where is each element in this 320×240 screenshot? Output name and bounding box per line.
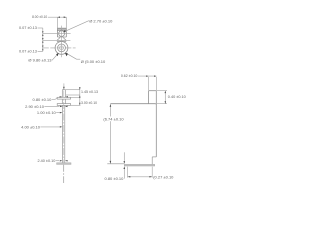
svg-text:0.40 ±0.10: 0.40 ±0.10 bbox=[168, 95, 186, 99]
svg-text:2.40 ±0.10: 2.40 ±0.10 bbox=[37, 159, 55, 163]
svg-text:4.00 ±0.10: 4.00 ±0.10 bbox=[21, 124, 41, 129]
svg-text:Ø 9.80 ±0.13: Ø 9.80 ±0.13 bbox=[28, 58, 52, 63]
svg-text:Ø 2.70 ±0.10: Ø 2.70 ±0.10 bbox=[89, 18, 113, 23]
svg-text:2.90 ±0.10: 2.90 ±0.10 bbox=[25, 104, 45, 109]
svg-text:0.07 ±0.13: 0.07 ±0.13 bbox=[19, 26, 37, 30]
svg-text:3.00 ±0.10: 3.00 ±0.10 bbox=[81, 101, 97, 105]
svg-text:(6.74 ±0.10: (6.74 ±0.10 bbox=[103, 116, 124, 121]
svg-text:1.45 ±0.13: 1.45 ±0.13 bbox=[81, 90, 98, 94]
svg-text:0.62 ±0.10: 0.62 ±0.10 bbox=[121, 74, 138, 78]
svg-text:Ø (5.00 ±0.10: Ø (5.00 ±0.10 bbox=[81, 59, 106, 64]
svg-text:0.80 ±0.10: 0.80 ±0.10 bbox=[105, 176, 125, 181]
svg-text:1.00 ±0.10: 1.00 ±0.10 bbox=[37, 110, 57, 115]
svg-text:0.07 ±0.13: 0.07 ±0.13 bbox=[19, 49, 37, 53]
svg-text:(0.27 ±0.10: (0.27 ±0.10 bbox=[153, 175, 174, 180]
svg-text:8.00 ±0.10: 8.00 ±0.10 bbox=[32, 15, 47, 19]
svg-text:0.80 ±0.10: 0.80 ±0.10 bbox=[33, 97, 53, 102]
